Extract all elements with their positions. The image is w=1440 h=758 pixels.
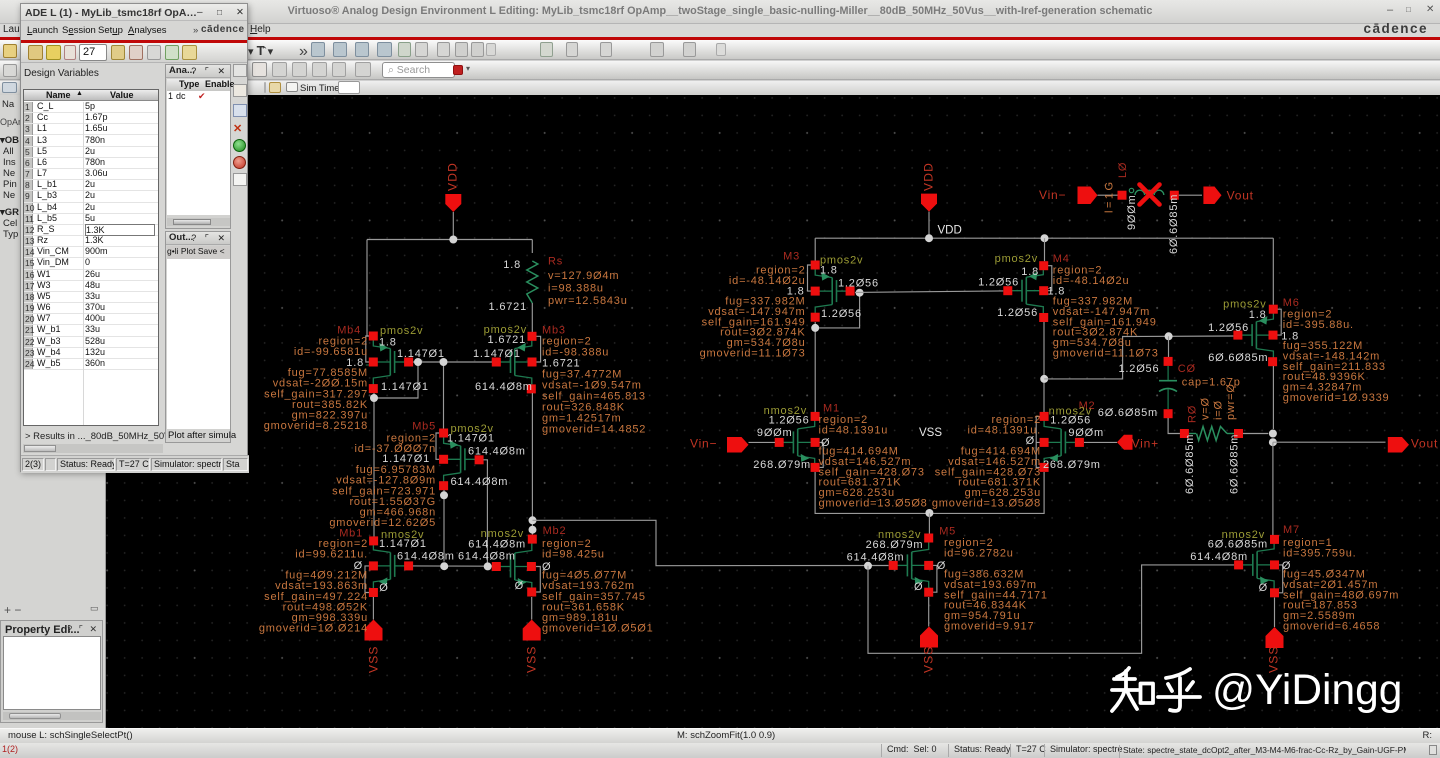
svg-text:614.4Ø8m: 614.4Ø8m [847,552,905,564]
svg-text:6Ø.6Ø85m: 6Ø.6Ø85m [1168,194,1180,254]
svg-text:268.Ø79m: 268.Ø79m [1043,459,1101,471]
svg-text:1.2Ø56: 1.2Ø56 [1119,363,1160,375]
svg-text:1.147Ø1: 1.147Ø1 [447,433,495,445]
svg-text:1.2Ø56: 1.2Ø56 [1208,322,1249,334]
svg-text:gmoverid=14.4852: gmoverid=14.4852 [542,424,646,436]
svg-text:1.147Ø1: 1.147Ø1 [397,348,445,360]
svg-text:M4: M4 [1053,253,1070,265]
svg-text:Vin−: Vin− [1039,188,1066,202]
svg-text:M3: M3 [783,251,800,263]
svg-text:1.147Ø1: 1.147Ø1 [379,538,427,550]
svg-text:pmos2v: pmos2v [995,253,1038,265]
svg-text:pwr=12.5843u: pwr=12.5843u [548,295,628,307]
svg-text:1.8: 1.8 [787,285,805,297]
svg-text:Vin+: Vin+ [1132,437,1159,451]
svg-text:RØ: RØ [1187,405,1199,423]
svg-text:gmoverid=11.1Ø73: gmoverid=11.1Ø73 [700,347,806,359]
svg-text:1.147Ø1: 1.147Ø1 [382,453,430,465]
svg-text:614.4Ø8m: 614.4Ø8m [397,551,455,563]
svg-text:gmoverid=1Ø.9339: gmoverid=1Ø.9339 [1283,392,1390,404]
svg-text:i=98.388u: i=98.388u [548,283,604,295]
svg-text:l=1G: l=1G [1104,179,1116,213]
svg-text:gmoverid=8.25218: gmoverid=8.25218 [264,420,368,432]
svg-text:Ø: Ø [1282,560,1291,572]
svg-text:6Ø.6Ø85m: 6Ø.6Ø85m [1098,407,1158,419]
svg-text:v=127.9Ø4m: v=127.9Ø4m [548,270,619,282]
svg-text:VSS: VSS [525,645,539,673]
svg-text:Mb5: Mb5 [412,421,436,433]
svg-text:614.4Ø8m: 614.4Ø8m [451,476,509,488]
svg-text:gmoverid=1Ø.Ø5Ø1: gmoverid=1Ø.Ø5Ø1 [542,622,654,634]
svg-text:id=395.759u.: id=395.759u. [1283,547,1357,559]
svg-text:Mb2: Mb2 [543,525,567,537]
svg-text:gmoverid=6.4658: gmoverid=6.4658 [1283,621,1380,633]
svg-text:1.147Ø1: 1.147Ø1 [473,348,521,360]
svg-text:gmoverid=13.Ø5Ø8: gmoverid=13.Ø5Ø8 [819,498,928,510]
svg-text:Ø: Ø [515,580,524,592]
svg-text:1.8: 1.8 [346,357,364,369]
svg-text:pwr=Ø: pwr=Ø [1225,383,1237,420]
svg-text:Ø: Ø [821,437,830,449]
svg-text:VSS: VSS [922,645,936,673]
svg-text:VSS: VSS [919,427,942,439]
svg-text:9ØØm: 9ØØm [757,427,793,439]
svg-text:Vout: Vout [1411,437,1438,451]
svg-text:M5: M5 [939,526,956,538]
svg-text:1.8: 1.8 [1281,331,1299,343]
svg-text:Ø: Ø [1259,582,1268,594]
svg-text:614.4Ø8m: 614.4Ø8m [458,551,516,563]
svg-text:id=-395.88u.: id=-395.88u. [1283,319,1354,331]
svg-text:Ø: Ø [914,581,923,593]
svg-text:gmoverid=9.917: gmoverid=9.917 [944,621,1034,633]
svg-text:Ø: Ø [542,561,551,573]
svg-text:1.2Ø56: 1.2Ø56 [769,415,810,427]
svg-text:M1: M1 [823,403,840,415]
svg-text:Ø: Ø [937,560,946,572]
svg-text:Rs: Rs [548,256,563,268]
svg-text:268.Ø79m: 268.Ø79m [753,459,811,471]
svg-text:M7: M7 [1283,524,1300,536]
svg-text:gmoverid=1Ø.Ø214: gmoverid=1Ø.Ø214 [259,622,368,634]
svg-text:1.2Ø56: 1.2Ø56 [838,278,879,290]
svg-text:VDD: VDD [922,162,936,191]
svg-text:@YiDingg: @YiDingg [1212,667,1402,714]
svg-text:6Ø.6Ø85m: 6Ø.6Ø85m [1229,434,1241,494]
svg-text:614.4Ø8m: 614.4Ø8m [475,381,533,393]
svg-text:1.2Ø56: 1.2Ø56 [821,308,862,320]
svg-text:Ø: Ø [1026,435,1035,447]
svg-text:9ØØm: 9ØØm [1068,427,1104,439]
svg-text:1.2Ø56: 1.2Ø56 [978,277,1019,289]
svg-text:i=Ø: i=Ø [1213,400,1225,420]
svg-text:id=96.2782u: id=96.2782u [944,547,1014,559]
svg-text:1.2Ø56: 1.2Ø56 [997,307,1038,319]
svg-text:1.6721: 1.6721 [489,301,527,313]
svg-text:CØ: CØ [1178,363,1196,375]
svg-text:1.8: 1.8 [379,337,397,349]
svg-text:id=99.6211u.: id=99.6211u. [295,549,368,561]
svg-text:9ØØm: 9ØØm [1126,194,1138,230]
svg-text:614.4Ø8m: 614.4Ø8m [468,446,526,458]
svg-text:1.8: 1.8 [1048,286,1066,298]
svg-text:1.8: 1.8 [820,265,838,277]
svg-text:VSS: VSS [367,645,381,673]
svg-text:6Ø.6Ø85m: 6Ø.6Ø85m [1208,539,1268,551]
svg-text:VDD: VDD [446,162,460,191]
svg-text:gmoverid=13.Ø5Ø8: gmoverid=13.Ø5Ø8 [932,498,1041,510]
svg-text:Vin−: Vin− [690,437,717,451]
svg-text:Ø: Ø [354,560,363,572]
svg-text:v=Ø: v=Ø [1200,397,1212,420]
svg-text:pmos2v: pmos2v [380,325,423,337]
svg-text:268.Ø79m: 268.Ø79m [866,539,924,551]
svg-text:614.4Ø8m: 614.4Ø8m [468,539,526,551]
svg-text:Vout: Vout [1227,189,1254,203]
svg-text:6Ø.6Ø85m: 6Ø.6Ø85m [1208,352,1268,364]
svg-text:M6: M6 [1283,297,1300,309]
svg-text:1.2Ø56: 1.2Ø56 [1050,415,1091,427]
svg-text:1.6721: 1.6721 [488,334,526,346]
svg-text:614.4Ø8m: 614.4Ø8m [1190,551,1248,563]
svg-text:gmoverid=11.1Ø73: gmoverid=11.1Ø73 [1053,347,1159,359]
svg-text:1.6721: 1.6721 [542,358,580,370]
svg-text:1.147Ø1: 1.147Ø1 [381,381,429,393]
svg-text:1.8: 1.8 [1249,309,1267,321]
svg-text:1.8: 1.8 [503,259,521,271]
svg-text:6Ø.6Ø85m: 6Ø.6Ø85m [1184,434,1196,494]
svg-text:VDD: VDD [938,225,962,237]
svg-text:Ø: Ø [379,582,388,594]
svg-text:LØ: LØ [1117,162,1129,178]
svg-text:id=48.1391u: id=48.1391u [819,424,889,436]
svg-text:id=98.425u: id=98.425u [542,549,605,561]
svg-text:1.8: 1.8 [1021,266,1039,278]
